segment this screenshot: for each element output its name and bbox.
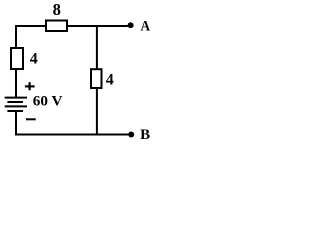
battery minus sign (26, 118, 36, 120)
resistor 4-ohm (left) (11, 48, 23, 69)
battery 60V plate 4 (short) (7, 110, 23, 112)
battery 60V plate 2 (short) (7, 101, 23, 103)
svg-text:60 V: 60 V (33, 93, 63, 110)
wire: middle resistor to bottom wire (96, 89, 98, 136)
svg-text:8: 8 (53, 0, 61, 19)
battery 60V plate 3 (long) (5, 105, 27, 107)
wire: top wire from resistor 8 to node A (68, 25, 130, 27)
wire: battery to bottom wire and bottom wire to node B (16, 111, 129, 135)
node A dot (128, 22, 134, 28)
wire: left resistor to battery (15, 70, 17, 98)
svg-text:B: B (140, 127, 150, 143)
resistor 8-ohm (top) (46, 21, 67, 32)
battery plus sign (25, 82, 35, 90)
node B dot (128, 132, 134, 138)
svg-text:A: A (141, 18, 151, 35)
wire: junction branch down from top wire (96, 25, 98, 70)
svg-text:4: 4 (30, 51, 38, 68)
wire: top-left corner (left branch up + top wire to resistor 8) (16, 26, 46, 48)
svg-text:4: 4 (106, 71, 114, 88)
battery 60V plate 1 (long) (5, 97, 27, 99)
resistor 4-ohm (middle) (91, 69, 102, 88)
